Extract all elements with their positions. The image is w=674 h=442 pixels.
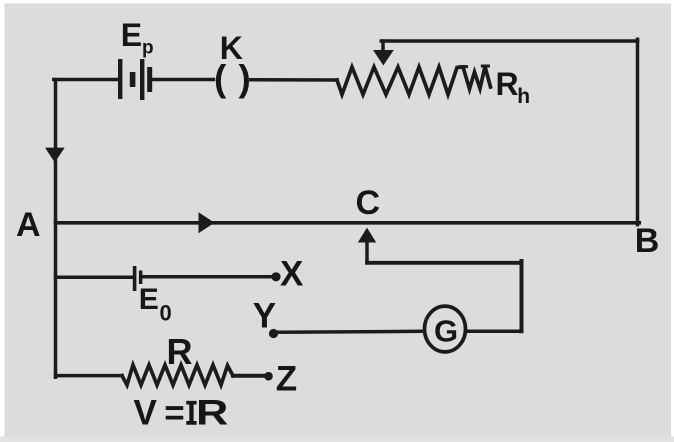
terminal dot X <box>271 272 280 281</box>
svg-text:Y: Y <box>253 297 276 336</box>
wire resistor R to Z <box>233 374 265 378</box>
galvanometer G circle <box>425 306 466 352</box>
svg-text:G: G <box>434 314 458 349</box>
svg-text:(: ( <box>214 58 227 99</box>
svg-text:V: V <box>134 394 158 433</box>
svg-text:E: E <box>139 283 159 316</box>
terminal dot Y <box>269 329 278 338</box>
wire Y to galvanometer G <box>277 331 424 332</box>
wire wiper to top-right corner <box>381 39 637 43</box>
arrowhead pointing up at C <box>358 228 376 243</box>
rheostat Rh zigzag element <box>337 67 491 95</box>
wire top-left horizontal to battery Ep <box>54 78 118 82</box>
svg-text:A: A <box>16 206 41 244</box>
rheostat wiper arrowhead <box>373 50 394 66</box>
wire cell E0 to X <box>142 275 275 279</box>
resistor R zigzag element <box>122 365 233 385</box>
wire battery Ep to key K <box>152 78 214 82</box>
wire A to B <box>56 221 640 225</box>
battery Ep plate long 2 <box>140 59 144 100</box>
battery Ep plate short 2 <box>147 67 152 92</box>
cell E0 plate long <box>133 266 137 291</box>
wire right vertical down to B <box>636 39 640 224</box>
arrow on wire A-B <box>199 212 215 233</box>
equation V = IR <box>134 393 229 432</box>
svg-text:Z: Z <box>276 360 297 399</box>
battery Ep plate short 1 <box>130 72 136 87</box>
terminal dot Z <box>264 372 273 381</box>
wire A to resistor R <box>56 374 123 378</box>
rheostat wiper shaft <box>381 41 385 52</box>
svg-text:C: C <box>356 184 381 222</box>
arrow down on left vertical wire <box>45 148 65 163</box>
wire C arrow shaft <box>365 241 369 263</box>
cell E0 plate short <box>139 271 143 285</box>
svg-text:0: 0 <box>160 300 172 325</box>
wire C-loop horizontal <box>367 261 522 265</box>
rheostat peak tick 1 <box>460 65 467 68</box>
svg-text:B: B <box>635 222 660 260</box>
svg-text:E: E <box>121 17 142 53</box>
svg-text:R: R <box>196 393 228 432</box>
svg-text:R: R <box>167 331 193 372</box>
wire left vertical (corner at top row down to resistor branch) <box>54 80 58 378</box>
wire galvanometer G to loop <box>468 330 522 334</box>
svg-text:=: = <box>164 394 184 433</box>
battery Ep plate long 1 <box>118 59 122 99</box>
wire C-loop right vertical <box>520 261 524 331</box>
svg-text:): ) <box>239 58 251 99</box>
svg-text:h: h <box>517 85 530 108</box>
svg-text:R: R <box>496 66 519 102</box>
svg-text:p: p <box>142 38 154 59</box>
svg-text:X: X <box>280 255 304 294</box>
wire key K to rheostat Rh <box>251 78 337 82</box>
rheostat peak tick 2 <box>482 65 488 68</box>
wire A to cell E0 <box>56 276 134 280</box>
